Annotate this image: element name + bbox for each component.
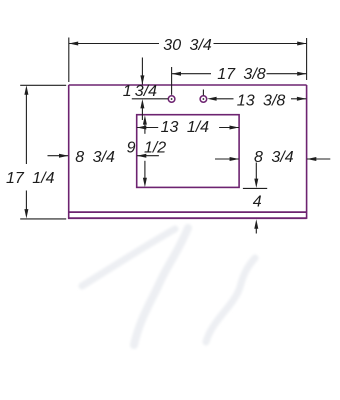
dimension 17 3/8 hole1 to right edge bbox=[172, 66, 307, 95]
svg-text:13 1/4: 13 1/4 bbox=[161, 119, 210, 136]
svg-text:17 1/4: 17 1/4 bbox=[6, 170, 55, 187]
svg-text:8 3/4: 8 3/4 bbox=[254, 149, 294, 166]
faucet hole left bbox=[168, 96, 175, 103]
svg-text:8 3/4: 8 3/4 bbox=[75, 149, 115, 166]
svg-text:4: 4 bbox=[253, 193, 262, 210]
countertop front edge double line bbox=[68, 212, 307, 218]
dimension 8 3/4 sink to right edge bbox=[215, 149, 330, 166]
dimension 8 3/4 left edge to sink bbox=[48, 149, 159, 166]
svg-text:9 1/2: 9 1/2 bbox=[127, 139, 167, 156]
watermark stroke middle bbox=[134, 228, 188, 345]
dimension 30 3/4 overall width bbox=[69, 37, 307, 82]
dimension 13 3/8 hole2 to right edge bbox=[203, 90, 306, 110]
svg-text:3/4: 3/4 bbox=[135, 83, 157, 100]
dimension 4 sink bottom to front edge bbox=[243, 163, 267, 234]
watermark stroke right bbox=[206, 258, 255, 342]
watermark stroke left bbox=[82, 229, 175, 286]
faucet hole right bbox=[200, 96, 207, 103]
svg-text:1: 1 bbox=[123, 83, 132, 100]
dimension 9 1/2 sink height bbox=[127, 115, 167, 187]
dimension 17 1/4 overall depth bbox=[6, 85, 66, 219]
countertop outer outline bbox=[69, 85, 307, 219]
dimension 13 1/4 sink width bbox=[137, 119, 239, 136]
dimension 1 3/4 top edge to hole centerline bbox=[123, 58, 168, 121]
svg-text:30 3/4: 30 3/4 bbox=[163, 37, 212, 54]
sink cutout rectangle bbox=[137, 115, 239, 188]
svg-text:17 3/8: 17 3/8 bbox=[217, 66, 266, 83]
svg-text:13 3/8: 13 3/8 bbox=[237, 92, 286, 109]
